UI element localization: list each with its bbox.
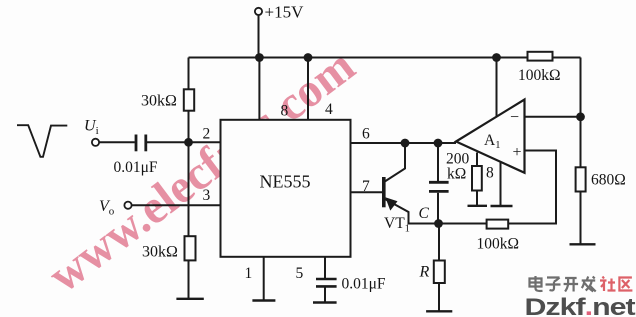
wire: left vertical (bus-30k-node2-30k-gnd) xyxy=(188,58,190,299)
svg-text:5: 5 xyxy=(296,265,304,282)
resistor 30k top xyxy=(184,89,194,110)
wire: 200k bottom lead xyxy=(476,191,478,206)
svg-text:100kΩ: 100kΩ xyxy=(518,67,561,84)
wire: Vo to pin 3 xyxy=(132,204,221,206)
resistor 100k top xyxy=(528,52,553,61)
wire: op-amp + input to lower 100k to node C xyxy=(438,151,557,224)
svg-text:−: − xyxy=(510,109,519,126)
svg-text:Dzkf.net: Dzkf.net xyxy=(525,293,636,317)
wire: +15V drop xyxy=(258,15,260,58)
wire: cap to pin 2 xyxy=(147,141,221,143)
transistor VT1 xyxy=(384,177,398,211)
resistor 200k xyxy=(472,166,482,191)
wire: pin 5 to cap xyxy=(324,257,326,279)
resistor 100k lower xyxy=(487,220,509,229)
logo glyph fa xyxy=(582,277,596,292)
resistor 30k bottom xyxy=(185,236,196,260)
NE555 U1 box xyxy=(221,120,351,257)
watermark www.elecfans.com xyxy=(39,39,365,303)
wire: input to coupling cap xyxy=(99,141,135,143)
svg-text:R: R xyxy=(419,264,430,281)
svg-text:0.01μF: 0.01μF xyxy=(342,276,386,293)
svg-text:1: 1 xyxy=(245,265,253,282)
svg-text:30kΩ: 30kΩ xyxy=(142,244,178,261)
svg-text:0.01μF: 0.01μF xyxy=(114,159,158,176)
wire: right vertical (100k to 680 to gnd) xyxy=(580,58,582,244)
svg-text:6: 6 xyxy=(362,126,370,143)
waveform symbol xyxy=(17,125,67,157)
wire: pin 4 drop xyxy=(307,58,309,120)
wire: VT1 collector xyxy=(384,143,405,182)
wire: top +15V bus xyxy=(189,57,581,59)
node: bus/op-amp supply xyxy=(492,53,501,62)
capacitor 0.01uF pin5 xyxy=(316,279,337,286)
node: divider/- input xyxy=(576,112,585,121)
svg-text:30kΩ: 30kΩ xyxy=(141,93,177,110)
svg-text:C: C xyxy=(419,205,430,222)
svg-text:4: 4 xyxy=(325,101,333,118)
svg-text:100kΩ: 100kΩ xyxy=(477,236,520,253)
ground: pin 5 cap xyxy=(313,301,337,303)
terminal Vo xyxy=(124,202,131,209)
svg-text:kΩ: kΩ xyxy=(447,166,466,183)
wire: cap to ground xyxy=(324,288,326,303)
wire: pin 6 to op-amp output xyxy=(351,142,457,144)
node 2 xyxy=(184,138,193,147)
wire: VT1 emitter to node C xyxy=(384,199,438,224)
svg-text:8: 8 xyxy=(486,165,494,182)
node: cap C top xyxy=(434,139,443,148)
wire: pin 1 to ground xyxy=(263,257,265,300)
ground: R xyxy=(426,310,452,312)
svg-text:+: + xyxy=(513,144,522,161)
logo glyph kai xyxy=(564,278,579,292)
svg-text:+15V: +15V xyxy=(265,3,305,22)
node: bus/pin4 xyxy=(304,53,313,62)
ground: op-amp xyxy=(491,205,513,207)
node C xyxy=(434,219,443,228)
logo glyph she xyxy=(600,277,616,292)
node: collector/pin6 xyxy=(401,139,410,148)
ground: pin 1 xyxy=(252,299,275,301)
terminal Ui xyxy=(92,139,99,146)
resistor R xyxy=(434,261,445,284)
wire: pin 7 to VT1 base xyxy=(351,191,383,193)
wire: pin 8 drop xyxy=(258,58,260,120)
terminal +15V xyxy=(255,8,262,15)
wire: cap C bottom lead xyxy=(437,193,439,224)
resistor 680 xyxy=(576,167,586,191)
ground: left 30k xyxy=(176,298,203,300)
logo glyph dian xyxy=(530,276,543,291)
wire: node C down to R xyxy=(438,224,440,261)
logo glyph zi xyxy=(546,278,561,291)
svg-text:8: 8 xyxy=(281,103,289,120)
logo glyph qu xyxy=(619,278,632,291)
capacitor C xyxy=(429,182,449,191)
wire: cap C top lead xyxy=(437,143,439,181)
grounds xyxy=(176,206,595,311)
op-amp A1 xyxy=(456,100,525,173)
wire: op-amp V+ drop xyxy=(496,58,498,118)
wire: 200k top lead xyxy=(476,153,478,167)
capacitor 0.01uF input xyxy=(136,135,146,152)
svg-text:NE555: NE555 xyxy=(260,172,311,192)
node: bus/pin8 xyxy=(255,53,264,62)
svg-text:680Ω: 680Ω xyxy=(591,172,626,189)
ground: 200k xyxy=(468,205,488,207)
svg-text:7: 7 xyxy=(362,178,370,195)
wire: op-amp gnd stub xyxy=(500,162,502,206)
svg-text:3: 3 xyxy=(203,187,211,204)
svg-text:2: 2 xyxy=(203,126,211,143)
ground: 680 xyxy=(570,243,596,245)
wire: op-amp - input to divider node xyxy=(525,116,581,118)
wire: R to ground xyxy=(438,283,440,311)
